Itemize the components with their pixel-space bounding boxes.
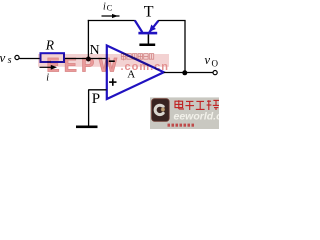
eeworld logo background <box>150 97 219 129</box>
svg-text:v: v <box>205 53 211 67</box>
svg-text:v: v <box>0 50 6 65</box>
logo tiny red tagline <box>168 124 195 127</box>
svg-text:EEPW: EEPW <box>47 54 118 76</box>
svg-text:C: C <box>107 3 113 13</box>
wire P down to ground <box>88 90 90 126</box>
output junction node dot <box>182 70 187 75</box>
wire right vertical down to output <box>184 21 186 73</box>
eeworld logo center dot <box>161 108 165 112</box>
wire input to op-amp N input <box>19 58 106 60</box>
svg-text:.com.cn: .com.cn <box>121 61 169 73</box>
svg-text:eeworld.co: eeworld.co <box>174 111 220 123</box>
svg-text:T: T <box>144 3 154 20</box>
op-amp U1 triangle <box>107 46 164 100</box>
svg-text:O: O <box>212 59 219 69</box>
input terminal vs <box>15 55 19 59</box>
node N dot <box>86 57 91 62</box>
current arrow iC <box>102 15 120 17</box>
wire top rail left segment <box>88 20 135 22</box>
resistor R1 <box>41 53 65 62</box>
svg-text:s: s <box>8 55 12 66</box>
watermark pink band <box>38 54 169 77</box>
transistor base lead <box>147 34 149 43</box>
eeworld logo icon dark square <box>152 99 170 122</box>
transistor T collector diagonal <box>135 20 143 32</box>
watermark chinese characters <box>121 54 153 61</box>
eeworld logo C ring <box>155 105 163 114</box>
wire P input <box>88 89 106 91</box>
svg-text:i: i <box>103 2 106 13</box>
svg-text:R: R <box>45 37 55 52</box>
current arrow i <box>40 66 52 68</box>
minus sign at N input <box>109 60 115 62</box>
svg-text:P: P <box>92 91 100 107</box>
transistor T emitter diagonal with arrow <box>149 21 158 33</box>
plus sign at P input <box>109 81 116 83</box>
transistor T base bar <box>138 32 157 35</box>
ground bar at P <box>76 126 98 129</box>
wire top rail right segment <box>158 20 185 22</box>
wire node N up to top rail <box>87 20 89 59</box>
logo chinese text 电子工程 <box>175 100 219 110</box>
ground bar at transistor base <box>139 44 155 47</box>
output terminal circle <box>213 71 217 75</box>
op-amp output wire <box>164 72 213 74</box>
